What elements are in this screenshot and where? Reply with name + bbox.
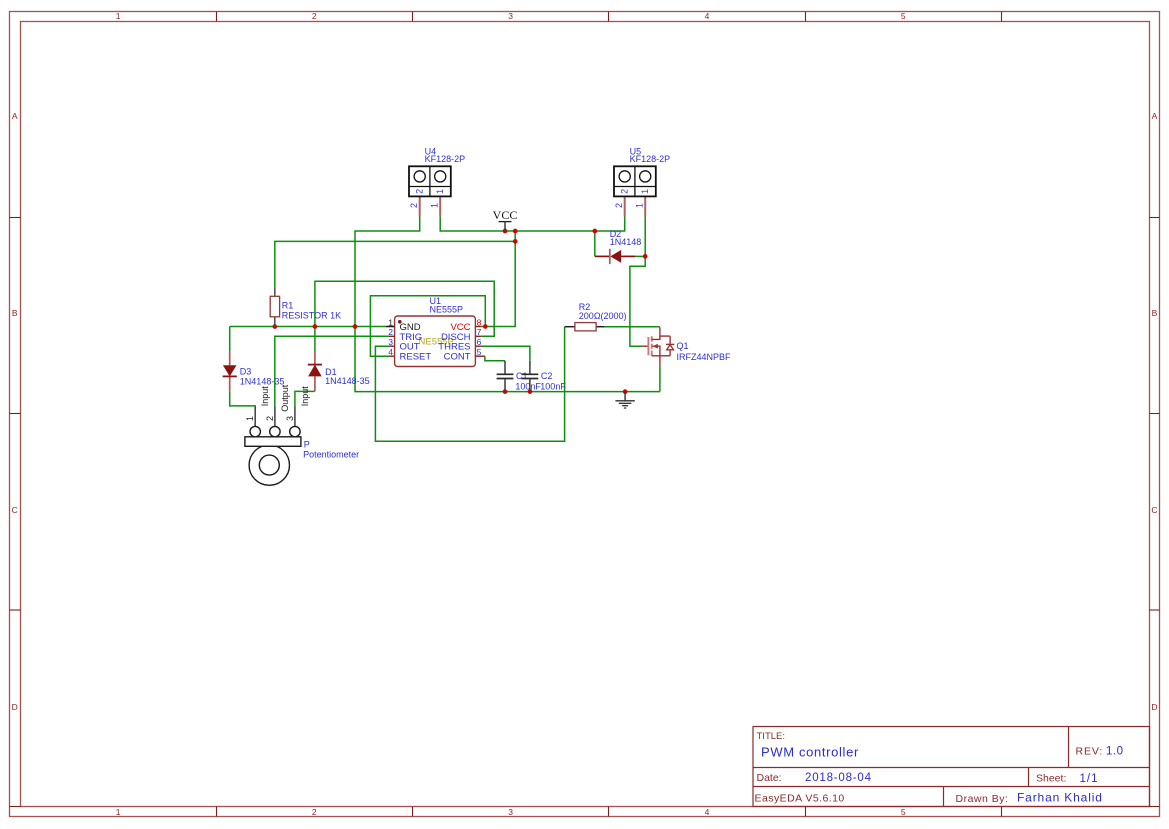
U1 pin 5 stub [475,355,485,357]
svg-text:Potentiometer: Potentiometer [303,449,359,459]
svg-text:Q1: Q1 [677,341,689,351]
junction D2 drop on VCC rail [592,229,597,234]
svg-text:PWM controller: PWM controller [761,744,859,759]
svg-text:1/1: 1/1 [1080,773,1099,785]
Q1 body diode [660,335,670,337]
svg-text:4: 4 [705,11,710,21]
svg-text:1: 1 [388,317,393,327]
svg-text:Input: Input [260,386,270,407]
svg-text:5: 5 [477,347,482,357]
svg-text:C: C [1151,505,1157,515]
svg-text:Farhan Khalid: Farhan Khalid [1017,791,1103,805]
pot pin stubs [254,407,256,427]
svg-text:1: 1 [640,189,650,194]
svg-text:1: 1 [430,203,440,208]
svg-text:2: 2 [388,327,393,337]
wire net VCC: U4 pin1 to U5 pin2 top rail [440,217,625,232]
svg-text:RESET: RESET [400,352,432,363]
U1 pin 2 stub [389,335,395,337]
Q1 channel segments [651,336,653,341]
wire pin8 stub join [481,326,485,328]
Q1 drain [652,327,660,339]
svg-text:2: 2 [312,807,317,817]
svg-text:TITLE:: TITLE: [757,731,786,742]
wire RESET to pin8 net [370,296,485,356]
junction VCC/R1 drop [513,229,518,234]
capacitor C2 [522,361,567,392]
diode D1 [308,352,370,392]
svg-text:R1: R1 [282,301,294,311]
wire D3 bottom to pot pin1 [230,392,256,407]
svg-text:A: A [12,111,18,121]
svg-text:Output: Output [280,384,290,412]
svg-text:100nF: 100nF [515,381,541,391]
U5 pin 1 [644,196,646,216]
U4 pin 2 [419,196,421,216]
wire TRIG to pot pin2 [275,336,389,406]
svg-text:7: 7 [477,327,482,337]
wire VCC tap down to R1 rail [514,231,516,241]
svg-text:C: C [12,505,18,515]
svg-text:1N4148-35: 1N4148-35 [240,377,285,387]
junction ground symbol [623,389,628,394]
svg-text:NE555P: NE555P [430,305,464,315]
svg-text:P: P [304,440,310,450]
svg-text:D: D [12,702,18,712]
svg-text:3: 3 [285,416,295,421]
svg-text:2: 2 [265,416,275,421]
junction U1 pin8 [483,324,488,329]
svg-text:3: 3 [508,807,513,817]
svg-text:100nF: 100nF [540,381,566,391]
junction C1 bottom [503,389,508,394]
junction D2 right / U5 pin1 [643,254,648,259]
svg-text:2: 2 [619,189,629,194]
U1 pin 7 stub [475,335,481,337]
U1 pin 6 stub [475,345,481,347]
capacitor C1 [497,361,542,392]
wire R1 top rail [275,241,515,287]
resistor R2 [565,302,627,331]
wire DISCH to D1 top net [315,281,494,336]
wire VCC rail down to pin8 [485,241,515,326]
U1 pin 1 stub [386,326,395,328]
svg-text:4: 4 [388,347,393,357]
svg-text:VCC: VCC [493,208,518,222]
svg-text:C2: C2 [541,371,553,381]
diode D3 [223,352,285,392]
svg-text:1: 1 [435,189,445,194]
connector U4 [409,146,465,216]
diode D2 [595,229,641,264]
svg-text:6: 6 [477,337,482,347]
svg-text:Input: Input [300,386,310,407]
wire THRES to C2 top [481,346,530,361]
junction GND drop [353,324,358,329]
svg-text:IRFZ44NPBF: IRFZ44NPBF [677,352,732,362]
U1 pin1 marker [398,320,402,324]
Q1 gate lead [641,345,648,347]
U1 pin 8 stub [475,326,481,328]
junction R1 rail [513,239,518,244]
svg-text:Date:: Date: [757,772,782,784]
transistor Q1 [641,327,731,365]
svg-text:2: 2 [414,189,424,194]
U5 pin 2 [624,196,626,216]
svg-text:200Ω(2000): 200Ω(2000) [579,311,627,321]
svg-text:REV:: REV: [1076,745,1104,757]
svg-text:Drawn By:: Drawn By: [956,793,1009,805]
svg-text:Sheet:: Sheet: [1036,773,1066,785]
wire OUT down around to R2 left [375,327,564,442]
wire D2 left drop from VCC rail [594,231,596,256]
svg-text:D: D [1151,702,1157,712]
svg-text:EasyEDA V5.6.10: EasyEDA V5.6.10 [755,793,845,805]
svg-text:KF128-2P: KF128-2P [425,154,466,164]
svg-text:1: 1 [116,807,121,817]
svg-text:A: A [1152,111,1158,121]
svg-text:2: 2 [312,11,317,21]
svg-text:2: 2 [614,203,624,208]
svg-text:2: 2 [409,203,419,208]
svg-text:8: 8 [477,317,482,327]
U1 pin 3 stub [389,345,395,347]
svg-text:2018-08-04: 2018-08-04 [805,772,872,784]
wire D2 right to junction [635,255,645,257]
wire D1 bottom to pot pin3 [295,391,315,406]
wire R2 right to Q1 drain [605,326,660,328]
potentiometer P [245,384,359,485]
junction D1 top [313,324,318,329]
U1 pin 4 stub [389,355,395,357]
svg-text:C1: C1 [516,371,528,381]
wire net GND: U4 pin2 down, left run, long vertical, bottom ground rail [355,217,660,392]
wire U5 pin1 down to D2 junction and gate [630,217,645,347]
Q1 body tap and source [653,346,660,365]
power flag VCC [493,208,518,231]
svg-text:5: 5 [901,807,906,817]
svg-text:1: 1 [635,203,645,208]
svg-text:CONT: CONT [444,352,471,363]
svg-text:1: 1 [116,11,121,21]
junction C2 bottom [528,389,533,394]
svg-text:KF128-2P: KF128-2P [630,154,671,164]
TITLE BLOCK [753,727,1150,807]
svg-text:B: B [1152,308,1158,318]
wire CONT to C1 top [485,356,505,361]
op IC U1 NE555P [386,296,485,367]
resistor R1 [270,287,341,326]
ground [615,392,634,409]
svg-text:4: 4 [705,807,710,817]
svg-text:3: 3 [388,337,393,347]
wire D3 top drop [229,327,231,352]
junction VCC symbol tap [503,229,508,234]
svg-text:RESISTOR 1K: RESISTOR 1K [282,311,341,321]
wire GND horizontal rail to U1 pin1 [230,326,386,328]
svg-text:5: 5 [901,11,906,21]
junction dots [272,229,647,394]
Q1 arrow [653,344,658,349]
svg-text:1.0: 1.0 [1106,746,1124,758]
U4 pin 1 [439,196,441,216]
connector U5 [614,146,670,216]
Q1 gate bar [647,337,649,355]
svg-text:1N4148: 1N4148 [610,237,642,247]
SCHEMATIC [223,146,731,485]
svg-text:1: 1 [245,416,255,421]
junction R1 bottom [272,324,277,329]
svg-text:1N4148-35: 1N4148-35 [325,376,370,386]
wire D1 top drop [314,327,316,352]
svg-text:3: 3 [508,11,513,21]
wire Q1 source down to ground rail [659,365,661,391]
svg-text:B: B [12,308,18,318]
svg-text:D3: D3 [240,366,252,376]
